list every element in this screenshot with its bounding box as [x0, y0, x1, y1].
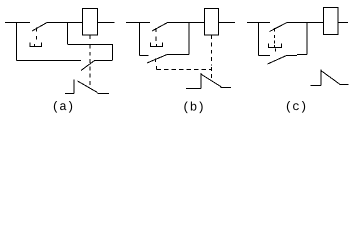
latch row right wire	[287, 55, 308, 56]
output contact left wire	[186, 88, 201, 90]
latch contact blade	[147, 55, 167, 64]
wire: coil right exit	[339, 22, 349, 24]
coil armature dashed link to output contact	[211, 67, 213, 78]
output contact K2 blade	[78, 81, 98, 93]
pushbutton SB blade	[270, 23, 288, 32]
node: T junction left drop wire	[258, 22, 260, 56]
output contact K2 left wire	[65, 93, 74, 95]
wire: coil right exit	[98, 22, 115, 24]
coil armature dashed link down	[211, 43, 213, 66]
pushbutton SB manual actuator cap	[150, 43, 163, 47]
wire: bottom rail right segment	[95, 60, 113, 62]
output contact K2 right wire	[98, 93, 110, 95]
pushbutton SB blade	[152, 23, 168, 32]
coil armature stub	[89, 35, 91, 39]
wire: top rail middle segment	[47, 22, 82, 24]
pushbutton SB manual actuator cap	[268, 44, 282, 48]
wire: right drop to bottom rail	[112, 44, 114, 60]
latch row right wire	[167, 54, 189, 56]
latch contact blade	[268, 56, 287, 65]
latch blade actuator tick	[156, 59, 157, 70]
relay coil K (a)	[83, 9, 98, 36]
pushbutton SB actuator dashed stem	[36, 28, 38, 40]
wire: tap down from top rail	[67, 22, 69, 44]
latch row left wire	[140, 55, 149, 57]
pushbutton SB actuator dashed stem	[274, 28, 276, 44]
coil armature stub	[211, 35, 213, 39]
output contact blade	[202, 75, 222, 88]
wire: latch right riser to top rail	[188, 22, 190, 55]
wire: mid rail	[68, 44, 113, 46]
wire: top rail left segment	[126, 22, 150, 24]
output contact riser	[320, 70, 322, 86]
relay coil K (b)	[205, 9, 219, 36]
output contact K2 riser	[73, 80, 75, 94]
output contact riser	[200, 73, 202, 89]
latch row left wire	[259, 55, 271, 57]
pushbutton SB actuator dashed stem	[155, 28, 157, 41]
node: T junction left drop wire	[139, 22, 141, 56]
wire: top rail left segment	[247, 22, 270, 24]
wire: top rail left segment	[5, 22, 30, 24]
pushbutton SB manual actuator cap	[30, 43, 43, 47]
output contact blade	[322, 71, 340, 84]
latch contact K1 blade	[81, 61, 95, 71]
node: T junction left drop wire	[16, 22, 18, 61]
wire: bottom rail left segment	[17, 60, 82, 62]
svg-text:(c): (c)	[285, 100, 308, 114]
dashed link pushbutton to latch blade	[275, 49, 277, 52]
wire: top rail right segment	[287, 22, 324, 24]
svg-text:(b): (b)	[182, 101, 205, 115]
wire: top rail middle segment	[168, 22, 205, 24]
output contact right wire	[221, 87, 232, 89]
dashed mechanical link horizontal	[157, 69, 213, 71]
wire: latch right riser to top rail	[306, 22, 308, 55]
wire: coil right exit	[219, 22, 236, 24]
output contact right wire	[340, 84, 349, 86]
relay coil K (c)	[324, 8, 339, 35]
coil armature dashed link down to contacts	[89, 45, 91, 87]
svg-text:(a): (a)	[52, 100, 75, 114]
pushbutton SB blade	[32, 23, 47, 32]
output contact left wire	[311, 85, 322, 87]
